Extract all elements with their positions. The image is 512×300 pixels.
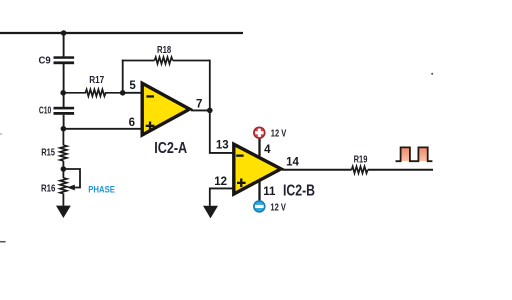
resistor R15 xyxy=(60,145,67,161)
resistor R17 xyxy=(63,89,122,96)
svg-text:C9: C9 xyxy=(39,56,52,67)
wire node B to pin 5 xyxy=(123,92,142,94)
wire node A to C10 xyxy=(63,93,65,107)
svg-text:R15: R15 xyxy=(41,148,55,159)
stray dot artifact xyxy=(431,73,433,75)
node top rail / C9 junction xyxy=(61,30,67,36)
svg-text:5: 5 xyxy=(129,80,136,92)
svg-text:6: 6 xyxy=(129,117,135,129)
wire R15 to node D xyxy=(62,161,64,169)
svg-text:R18: R18 xyxy=(157,45,172,56)
op-amp IC2-B xyxy=(234,144,281,194)
wire output right xyxy=(368,169,433,171)
svg-text:R17: R17 xyxy=(89,75,104,86)
potentiometer R16 xyxy=(60,169,80,206)
svg-text:12 V: 12 V xyxy=(270,203,286,214)
svg-text:11: 11 xyxy=(263,186,276,198)
node D (R15/R16 junction) xyxy=(61,166,67,172)
waveform symbol (square wave) trace xyxy=(396,147,433,161)
wire ground drop xyxy=(209,188,211,206)
stray mark left edge xyxy=(0,133,2,135)
svg-text:R16: R16 xyxy=(41,184,56,195)
wire feedback left segment xyxy=(122,60,155,62)
svg-text:7: 7 xyxy=(196,98,202,110)
svg-text:IC2-B: IC2-B xyxy=(283,182,315,199)
resistor R18 (feedback) xyxy=(155,57,173,64)
wire feedback right segment xyxy=(173,60,210,62)
capacitor C10 xyxy=(54,107,75,115)
svg-text:12 V: 12 V xyxy=(271,128,287,139)
svg-text:C10: C10 xyxy=(39,105,52,116)
wire feedback down to output node xyxy=(209,60,211,111)
wire pin 14 output xyxy=(282,169,352,171)
capacitor C9 xyxy=(54,56,75,64)
resistor R19 xyxy=(352,166,368,173)
svg-text:13: 13 xyxy=(216,140,229,152)
wire to pin 13 xyxy=(209,152,233,154)
svg-text:14: 14 xyxy=(286,157,299,169)
wire C9 to node A xyxy=(63,64,65,93)
wire +12V supply xyxy=(258,138,260,158)
supply -12V symbol xyxy=(254,201,265,212)
wire C9 top lead xyxy=(63,33,65,57)
waveform symbol (square wave) pulse fills xyxy=(401,148,428,162)
svg-text:IC2-A: IC2-A xyxy=(154,140,187,157)
node E (IC2-A output junction) xyxy=(207,108,213,114)
node B (pin 5 net) xyxy=(120,90,126,96)
stray mark bottom-left xyxy=(0,241,6,243)
wire node C down to R15 xyxy=(62,129,64,146)
wire top supply rail xyxy=(0,32,243,34)
supply +12V symbol xyxy=(254,127,265,138)
svg-text:4: 4 xyxy=(264,144,271,156)
svg-text:PHASE: PHASE xyxy=(88,185,115,195)
wire pin 7 output xyxy=(191,109,210,111)
node A (R17 / C10 net) xyxy=(60,90,66,96)
op-amp IC2-A xyxy=(142,83,189,135)
svg-text:12: 12 xyxy=(214,176,227,188)
wire -12V supply xyxy=(258,181,260,201)
wire node E down xyxy=(209,110,211,152)
wire C10 to node C xyxy=(63,115,65,129)
ground (below R16) xyxy=(56,206,71,218)
node C (pin 6 net) xyxy=(61,126,67,132)
wire pin 12 to ground corner xyxy=(210,187,233,189)
ground (IC2-B pin 12) xyxy=(203,206,218,219)
svg-text:R19: R19 xyxy=(354,154,368,165)
wire node B up to feedback rail xyxy=(122,60,124,93)
wire node C to pin 6 xyxy=(63,128,141,130)
